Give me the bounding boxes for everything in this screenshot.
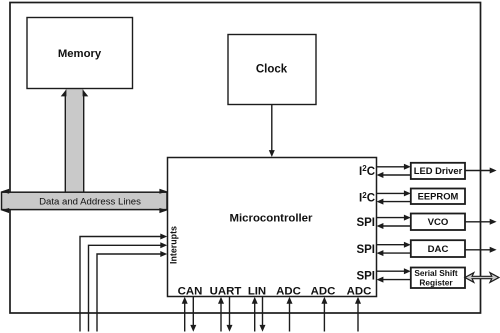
interrupt wire 1 (80, 237, 161, 332)
bus Data and Address Lines (2, 192, 168, 209)
wire ADC4 input (289, 303, 291, 332)
svg-text:ADC: ADC (347, 286, 372, 298)
svg-text:Serial Shift: Serial Shift (414, 268, 458, 278)
DAC box (411, 240, 465, 257)
svg-text:SPI: SPI (356, 244, 375, 256)
svg-text:EEPROM: EEPROM (418, 191, 459, 202)
svg-text:SPI: SPI (356, 217, 375, 229)
clock box (228, 35, 316, 105)
svg-text:Memory: Memory (58, 48, 102, 60)
VCO box (411, 214, 465, 231)
svg-text:Register: Register (419, 277, 453, 287)
svg-text:I2C: I2C (359, 191, 375, 205)
svg-text:LIN: LIN (248, 286, 266, 298)
wire LED Driver external output (465, 170, 491, 172)
svg-text:UART: UART (210, 286, 242, 298)
wire CAN1 input (184, 303, 186, 332)
memory box M1 (27, 18, 133, 89)
wire LIN3 output (262, 297, 264, 326)
wire ADC6 input (357, 303, 359, 332)
wire mcu to VCO (377, 217, 406, 219)
svg-text:DAC: DAC (428, 244, 449, 255)
wire VCO external output (465, 221, 491, 223)
svg-text:VCO: VCO (428, 217, 449, 228)
wire Serial Shift Register to mcu (383, 279, 411, 281)
wire mcu to Serial Shift Register (377, 270, 406, 272)
wire EEPROM to mcu (383, 201, 411, 203)
EEPROM box (411, 189, 465, 205)
wire UART2 input (220, 303, 222, 332)
svg-text:Microcontroller: Microcontroller (230, 213, 313, 225)
svg-text:ADC: ADC (276, 286, 301, 298)
wire DAC to mcu (383, 252, 411, 254)
wire mcu to EEPROM (377, 192, 406, 194)
wire LED Driver to mcu (383, 174, 411, 176)
wire LIN3 input (254, 303, 256, 332)
wire clock to microcontroller (271, 105, 273, 153)
svg-text:I2C: I2C (359, 164, 375, 178)
bidirectional bus serial shift register external (465, 273, 499, 283)
Serial Shift Register box (411, 268, 465, 289)
interrupt wire 3 (97, 254, 161, 332)
wire DAC external output (465, 249, 491, 251)
svg-text:Data and Address Lines: Data and Address Lines (39, 196, 141, 207)
svg-text:CAN: CAN (178, 286, 203, 298)
interrupt wire 2 (89, 245, 162, 331)
svg-text:ADC: ADC (311, 286, 336, 298)
wire UART2 output (229, 297, 231, 326)
microcontroller box U1 (168, 158, 377, 297)
wire ADC5 input (323, 303, 325, 332)
svg-text:Interupts: Interupts (169, 226, 179, 264)
bus memory to data/address lines (65, 89, 83, 193)
svg-text:SPI: SPI (356, 270, 375, 282)
svg-text:Clock: Clock (256, 64, 288, 76)
wire VCO to mcu (383, 225, 411, 227)
wire mcu to DAC (377, 244, 406, 246)
LED Driver box (411, 163, 465, 179)
svg-text:LED Driver: LED Driver (414, 165, 463, 176)
wire CAN1 output (192, 297, 194, 326)
wire mcu to LED Driver (377, 166, 406, 168)
